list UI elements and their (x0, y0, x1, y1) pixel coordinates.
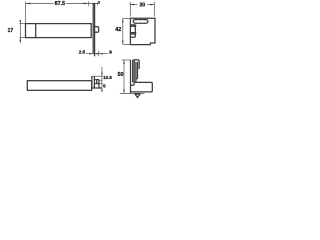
wall line (130, 60, 132, 94)
hook cap (133, 60, 139, 69)
hook (side view) (95, 27, 99, 33)
hook slot bottom (136, 77, 138, 79)
arm rectangle (side view) (26, 24, 92, 38)
hook (front view) box (95, 79, 99, 81)
base line (120, 92, 145, 94)
dim 87.5 extension line right (88, 1, 90, 6)
dim 2.5 / dim 8 dimension line (86, 53, 108, 55)
plate back line (133, 60, 135, 83)
dim 10.5/5 extension tick middle (99, 79, 103, 81)
dim 10.5 arrow (pointing down, above top ext) (101, 73, 103, 77)
dim 2.5 arrow (pointing right at plate front) (89, 53, 93, 55)
plate bottom step (131, 84, 135, 86)
dim 8 tick (98, 51, 100, 57)
dim 2 tick (97, 2, 99, 5)
support tip triangle (135, 94, 140, 97)
dim 87.5 extension line left (24, 2, 26, 24)
rail outline with bottom-right step (130, 18, 155, 44)
hook slot line right (137, 62, 139, 79)
svg-text:10.5: 10.5 (103, 75, 112, 80)
hook slot line left (135, 62, 137, 83)
arm block (131, 82, 152, 92)
dim 17 arrow top (pointing down) (20, 20, 22, 24)
slot divider 1 (138, 20, 140, 23)
svg-text:8: 8 (109, 50, 112, 55)
dim 87.5 arrow right (84, 3, 89, 5)
plate bottom edge (91, 87, 102, 89)
dim 2 dimension line with arrow (89, 3, 98, 5)
C-channel inner vertical (134, 26, 136, 37)
dim 87.5 dimension line (25, 2, 53, 4)
dim 50 extension line top (122, 59, 131, 61)
dim 10.5/5 extension line top (91, 75, 102, 77)
svg-text:50: 50 (118, 72, 124, 78)
dim 30 extension lines (129, 2, 131, 17)
plate (edge-on) right line (93, 76, 95, 88)
dim 42 extension line top (123, 17, 131, 19)
dim 30 dimension line (130, 4, 137, 6)
dim 42 extension line bottom (123, 44, 131, 46)
dim 50 dimension line (123, 60, 125, 93)
dim 17 arrow bottom (pointing up) (20, 38, 22, 42)
plate thick line (132, 60, 134, 83)
svg-text:2: 2 (98, 0, 100, 4)
dim 42 arrows (122, 18, 124, 22)
plate (edge-on) left thick line (91, 76, 93, 88)
arm rectangle (front view) (27, 81, 91, 91)
dim 17 dimension line (19, 20, 21, 43)
C-channel top bar (131, 25, 136, 26)
svg-text:30: 30 (139, 3, 145, 9)
dim 10.5/5 extension tick bottom (99, 83, 102, 85)
C-channel bottom bar (131, 33, 136, 34)
slot band outline (133, 20, 148, 24)
C-channel lower step (131, 36, 136, 38)
svg-text:42: 42 (115, 27, 121, 33)
dim 10.5/5 dimension line (101, 67, 103, 92)
dim 17 extension line top (19, 23, 25, 25)
dim 2.5 arrow (pointing left at plate back) (95, 53, 98, 55)
dim 8 arrow (pointing left at tick) (99, 53, 103, 55)
dim 5 arrow (pointing up, below bottom ext) (101, 88, 103, 92)
dim 50 arrows (123, 60, 125, 64)
dim 30 arrows (130, 4, 134, 6)
arm inner vertical line (35, 24, 37, 38)
svg-text:17: 17 (8, 28, 14, 34)
slot divider 2 (141, 20, 143, 23)
svg-text:5: 5 (103, 83, 106, 88)
wall plate back line (94, 4, 96, 56)
svg-text:87.5: 87.5 (55, 1, 66, 7)
wall plate front line (92, 4, 94, 54)
dim 87.5 arrow left (25, 3, 30, 5)
dim 42 dimension line (122, 18, 124, 44)
dim 17 extension line bottom (19, 37, 25, 39)
svg-text:2.5: 2.5 (79, 49, 86, 54)
